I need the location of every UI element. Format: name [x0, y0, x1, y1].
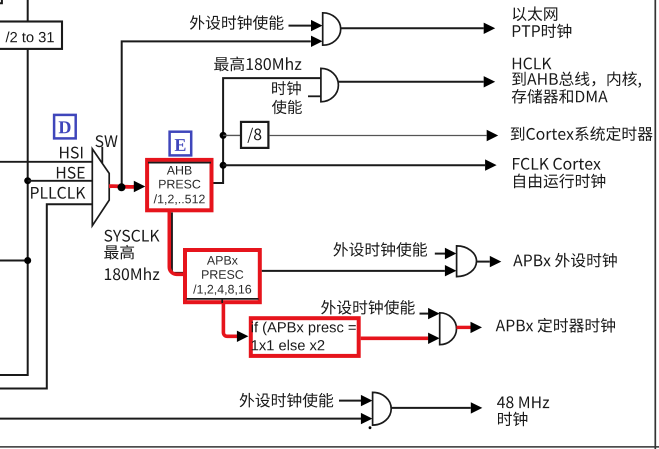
wire: SYSCLK riser to ethernet gate lower input	[122, 36, 323, 188]
label: HCLK to AHB bus core memory DMA	[512, 58, 641, 104]
wire: FCLK line and arrow	[223, 159, 497, 170]
wire: black inner edge of APBx PRESC box	[187, 299, 259, 303]
wire: 48MHz output arrow	[391, 402, 482, 413]
and-gate: APBx peripheral clock gate	[457, 246, 477, 277]
wire: APBx PRESC output to APBx peripheral gate	[262, 265, 457, 276]
condition box: if (APBx presc = 1x1 else x2)	[251, 318, 359, 356]
label: max 180Mhz	[214, 57, 301, 72]
wire: /8 output line to Cortex system timer	[269, 130, 498, 141]
label: FCLK Cortex free-running clock	[513, 158, 605, 188]
wire: HSE line from bus to mux	[28, 180, 93, 182]
wire: black inner edge of AHB PRESC box	[148, 162, 211, 164]
label: APBx timer clock	[496, 318, 615, 333]
wire: AHB PRESC output riser	[214, 78, 321, 183]
node: junction riser to FCLK	[220, 162, 227, 169]
node: junction on left bus at feed	[24, 257, 31, 264]
label: HSI	[60, 147, 82, 159]
divider /8 box	[241, 122, 268, 148]
and-gate: ethernet PTP clock gate	[323, 13, 341, 45]
node: stray dot below 48MHz gate	[369, 426, 372, 429]
wire: enable arrow into APBx peripheral gate	[435, 248, 457, 259]
label: PLLCLK	[31, 187, 85, 199]
and-gate: APBx timer clock gate	[440, 313, 457, 345]
wire: ethernet gate output arrow	[341, 23, 496, 34]
wire: SW select line into mux	[101, 147, 103, 163]
wire: enable stub into HCLK gate	[308, 95, 321, 97]
wire: horizontal feed joining left bus	[0, 260, 28, 262]
wire: enable arrow into 48MHz gate	[339, 395, 372, 406]
wire: main left vertical bus (HSE source) exiting bottom-left	[0, 0, 28, 375]
node: junction riser to /8	[220, 132, 227, 139]
wire: cropped box corner top-left	[0, 0, 2, 3]
wire: PLLCLK line exiting bottom-left	[0, 204, 93, 388]
wire: AHB PRESC down to APBx PRESC (black)	[172, 213, 184, 273]
label: SW	[95, 135, 117, 147]
and-gate: HCLK clock-enable gate	[321, 68, 339, 101]
wire: APBx peripheral output arrow	[477, 256, 502, 267]
label D (blue box)	[54, 115, 76, 138]
divider /2 to 31 box	[0, 22, 62, 49]
wire: red timer gate output arrow	[457, 322, 483, 333]
label: APBx peripheral clock	[513, 253, 617, 268]
label: to Cortex system timer	[511, 126, 653, 141]
label: Ethernet PTP clock	[513, 6, 572, 38]
wire: stub to /8 divider	[223, 134, 240, 136]
node: SYSCLK junction	[118, 183, 126, 191]
page border bottom	[0, 446, 659, 448]
and-gate: 48MHz clock gate	[373, 392, 392, 425]
label: clock enable (HCLK gate)	[272, 81, 302, 114]
node: junction on left bus at HSE tap	[24, 177, 31, 184]
page border right	[654, 0, 656, 449]
mux SW (system clock switch)	[92, 149, 109, 226]
prescaler AHB PRESC box	[147, 160, 211, 210]
wire: enable arrow into timer gate	[420, 308, 440, 319]
label: peripheral clock enable (48MHz)	[240, 393, 334, 408]
wire: red drop from APBx PRESC to if-box	[223, 303, 248, 342]
wire: HSI input line to mux	[0, 161, 93, 163]
wire: 48MHz gate lower input line from left edge	[0, 413, 372, 424]
label E (blue box)	[170, 132, 192, 156]
label: HSE	[57, 167, 85, 179]
label: peripheral clock enable (ethernet)	[190, 15, 284, 30]
wire: red if-box output to timer gate	[361, 333, 440, 344]
label: 48 MHz clock	[497, 396, 549, 426]
wire: enable arrow into ethernet gate	[289, 20, 323, 31]
label: peripheral clock enable (APBx periph)	[333, 242, 427, 257]
label: peripheral clock enable (APBx timer)	[321, 300, 415, 315]
label: SYSCLK max 180Mhz	[104, 230, 159, 281]
wire: HCLK output arrow	[338, 76, 495, 87]
wire: SYSCLK red output mux to AHB PRESC	[109, 181, 145, 192]
prescaler APBx PRESC box	[185, 250, 260, 302]
wire: red highlight wire AHB to APBx PRESC	[169, 211, 183, 275]
